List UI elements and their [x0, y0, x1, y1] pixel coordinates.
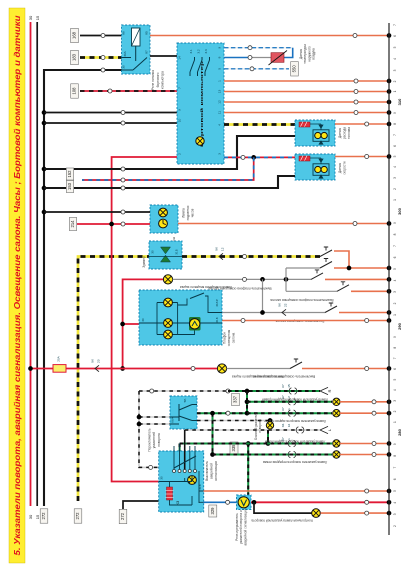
svg-text:салона: салона — [232, 332, 236, 343]
svg-text:9: 9 — [393, 443, 397, 445]
svg-text:85: 85 — [145, 31, 149, 35]
svg-text:К7: К7 — [281, 384, 285, 388]
svg-text:4: 4 — [393, 279, 397, 281]
wire buzzer yellow-black out — [182, 255, 320, 258]
svg-text:300: 300 — [397, 207, 402, 214]
svg-text:сигнализации: сигнализации — [214, 461, 218, 482]
wire rear right turn lamp row — [247, 412, 332, 414]
svg-text:5: 5 — [218, 68, 222, 70]
svg-text:7: 7 — [393, 245, 397, 247]
svg-text:183: 183 — [72, 53, 77, 61]
svg-text:329: 329 — [210, 507, 215, 515]
svg-text:5: 5 — [393, 490, 397, 492]
resistor K3 — [167, 487, 173, 500]
svg-text:8: 8 — [218, 56, 222, 58]
track ruler — [388, 23, 390, 535]
svg-text:Выключатель: Выключатель — [205, 461, 209, 481]
lamp hazard — [188, 476, 197, 485]
svg-text:30А: 30А — [123, 50, 127, 56]
wire red branch to glovebox lamp and dome light — [123, 279, 168, 368]
svg-text:подсветки: подсветки — [186, 205, 190, 220]
wire pin8 blue to temp sensor — [224, 57, 250, 59]
timer unit with lamp — [189, 317, 201, 331]
svg-text:16: 16 — [287, 424, 291, 428]
svg-text:6: 6 — [393, 478, 397, 480]
svg-text:3.2: 3.2 — [197, 49, 201, 54]
wire clock orange to track — [178, 223, 389, 225]
svg-text:4: 4 — [393, 58, 397, 60]
svg-text:31Б: 31Б — [198, 484, 202, 489]
svg-text:12: 12 — [218, 100, 222, 104]
label 337 — [232, 394, 240, 406]
svg-text:280: 280 — [397, 428, 402, 435]
hazard switch U8 — [159, 451, 204, 512]
wire bw vertical turn switch feed — [139, 391, 228, 467]
svg-text:6: 6 — [393, 35, 397, 37]
node 272-clock — [42, 210, 47, 215]
svg-text:К3: К3 — [175, 500, 180, 505]
wire speed sensor ground — [44, 176, 295, 188]
svg-text:5: 5 — [393, 378, 397, 380]
svg-text:5: 5 — [393, 268, 397, 270]
svg-text:5. Указатели поворота, аварийн: 5. Указатели поворота, аварийная сигнали… — [13, 16, 22, 556]
wire front right turn lamp row — [247, 401, 332, 403]
lamp turn front right — [333, 398, 340, 405]
svg-text:К7: К7 — [281, 407, 285, 411]
lamp clock illumination — [159, 208, 168, 217]
svg-text:310: 310 — [397, 98, 402, 105]
wire row L fork bw — [185, 429, 320, 431]
lamp turn front left — [333, 451, 340, 458]
svg-text:8: 8 — [393, 347, 397, 349]
svg-text:30: 30 — [141, 318, 145, 322]
lamp turn rear right — [333, 410, 340, 417]
thermistor outside temperature sensor — [271, 53, 284, 63]
buzzer U5 — [149, 241, 182, 269]
svg-text:550: 550 — [292, 65, 297, 73]
lamp turn rear left — [333, 440, 340, 447]
wire row door switch S2 — [286, 267, 320, 269]
svg-text:2: 2 — [393, 410, 397, 412]
wire fuel sensor ground — [44, 136, 295, 169]
svg-text:3: 3 — [393, 400, 397, 402]
svg-text:31Б: 31Б — [175, 249, 179, 254]
switch door S1 — [320, 250, 332, 257]
svg-text:30: 30 — [122, 65, 126, 69]
svg-text:31Б: 31Б — [215, 317, 219, 322]
svg-text:Лампа: Лампа — [182, 208, 186, 218]
svg-text:часов: часов — [191, 208, 195, 217]
svg-text:1: 1 — [393, 199, 397, 201]
svg-text:Х6: Х6 — [281, 423, 285, 427]
svg-text:3.1: 3.1 — [189, 49, 193, 54]
wire 168 — [71, 28, 79, 42]
wire orange S1 to node — [334, 251, 349, 268]
svg-text:23: 23 — [97, 359, 101, 363]
svg-text:2: 2 — [178, 153, 182, 155]
svg-text:4: 4 — [393, 502, 397, 504]
wire relay85 orange to track — [150, 35, 389, 37]
svg-text:Контрольная лампа указателей п: Контрольная лампа указателей поворота — [251, 519, 312, 523]
wire pin1 orange — [224, 80, 389, 82]
svg-text:31БР: 31БР — [215, 299, 219, 307]
svg-text:Выключатель плафона освещения: Выключатель плафона освещения салона — [208, 287, 271, 291]
svg-text:К6А: К6А — [171, 416, 175, 423]
svg-text:топлива: топлива — [347, 127, 351, 139]
svg-text:290: 290 — [397, 322, 402, 329]
node 272-fuel — [42, 167, 47, 172]
wire red pin2 to hazard switch — [112, 157, 177, 482]
wire emitter bw row — [197, 420, 270, 422]
lamp glovebox 2 — [217, 364, 226, 373]
svg-text:10: 10 — [178, 119, 182, 123]
svg-text:7: 7 — [393, 357, 397, 359]
svg-text:Реле питания: Реле питания — [151, 70, 155, 90]
wire 272 hazard ground — [123, 501, 159, 509]
svg-text:8: 8 — [393, 455, 397, 457]
svg-text:22: 22 — [284, 303, 288, 307]
svg-text:аварийной: аварийной — [210, 463, 214, 479]
wire flasher out red — [251, 501, 389, 503]
svg-text:87: 87 — [145, 50, 149, 54]
relay K power of onboard computer — [122, 25, 151, 74]
svg-text:152: 152 — [67, 170, 72, 178]
hazard internal wires — [159, 471, 204, 505]
vertical links — [263, 268, 287, 313]
label 329 — [209, 505, 217, 517]
label 335 — [230, 442, 238, 454]
svg-text:6: 6 — [393, 368, 397, 370]
svg-text:153: 153 — [67, 182, 72, 190]
svg-text:ХК: ХК — [91, 359, 95, 363]
svg-text:6: 6 — [393, 256, 397, 258]
svg-text:7: 7 — [178, 87, 182, 89]
svg-text:8: 8 — [393, 123, 397, 125]
wire green row R fork — [228, 390, 320, 392]
svg-text:Переключатель: Переключатель — [148, 428, 152, 452]
wire to glovebox switch 2 — [227, 368, 290, 370]
svg-text:272: 272 — [75, 512, 80, 520]
wire clock ground — [44, 211, 150, 213]
svg-text:расхода: расхода — [343, 127, 347, 139]
svg-text:ХК: ХК — [215, 247, 219, 251]
wire 152 153 blue-red — [82, 157, 254, 180]
wire to control lamp — [254, 502, 312, 513]
svg-text:13: 13 — [218, 90, 222, 94]
wire pin11 orange — [224, 112, 389, 114]
svg-text:Датчик: Датчик — [338, 162, 342, 173]
rail 15 black supply — [36, 22, 38, 506]
svg-text:Лампа указателя поворота перед: Лампа указателя поворота передняя правая — [262, 398, 328, 402]
svg-text:14: 14 — [178, 56, 182, 60]
wire rear left turn lamp row — [180, 443, 332, 445]
lamp turn control — [312, 509, 321, 518]
svg-text:Лампа указателя поворота задня: Лампа указателя поворота задняя левая — [265, 439, 326, 443]
flasher relay K2 — [237, 495, 252, 510]
wire dome orange to track — [222, 320, 389, 322]
svg-text:1: 1 — [393, 90, 397, 92]
fuse 20A — [53, 365, 66, 373]
svg-text:2: 2 — [393, 525, 397, 527]
svg-text:20А: 20А — [57, 355, 61, 361]
svg-text:272: 272 — [41, 512, 46, 520]
wire front left turn lamp row — [213, 454, 333, 456]
svg-text:337: 337 — [233, 395, 238, 403]
wire fuel sensor orange — [335, 123, 389, 125]
svg-text:бортового: бортового — [156, 72, 160, 87]
svg-text:9: 9 — [393, 336, 397, 338]
svg-text:1: 1 — [393, 314, 397, 316]
svg-text:указателей: указателей — [152, 432, 156, 449]
svg-text:5: 5 — [393, 155, 397, 157]
svg-text:6: 6 — [393, 145, 397, 147]
svg-text:3: 3 — [393, 177, 397, 179]
title bar — [9, 8, 25, 563]
svg-text:Лампа указателя поворота задня: Лампа указателя поворота задняя правая — [264, 419, 326, 423]
wire row S4 — [286, 290, 337, 292]
svg-text:15: 15 — [35, 514, 40, 519]
svg-text:3: 3 — [393, 291, 397, 293]
svg-text:30: 30 — [28, 15, 33, 20]
wire ground to pin10 — [44, 122, 177, 124]
svg-text:компьютера: компьютера — [161, 71, 165, 89]
wire hazard orange out — [204, 490, 389, 492]
wire ground to pin9 — [44, 112, 177, 114]
clock U4 box — [150, 205, 178, 233]
svg-text:9: 9 — [393, 222, 397, 224]
svg-text:Выключатель плафона освещения: Выключатель плафона освещения салона — [270, 298, 333, 302]
svg-text:воздуха: воздуха — [312, 48, 316, 60]
svg-text:Лампа указателя поворота перед: Лампа указателя поворота передняя левая — [263, 460, 327, 464]
switch S3 — [311, 273, 323, 280]
svg-text:214: 214 — [70, 220, 75, 228]
svg-text:3: 3 — [393, 69, 397, 71]
svg-text:168: 168 — [72, 31, 77, 39]
svg-text:86: 86 — [122, 31, 126, 35]
svg-text:30: 30 — [160, 476, 164, 480]
wire pin3 blue-red speed signal — [224, 156, 295, 158]
svg-text:1: 1 — [218, 80, 222, 82]
svg-text:ХК: ХК — [278, 303, 282, 307]
lamps dome — [164, 298, 173, 307]
wire hazard blue to flasher — [204, 501, 237, 503]
lamp glovebox 1 — [163, 275, 172, 284]
wire row S5 dome switch line — [222, 312, 325, 314]
wire 550 pin5 blue-white — [224, 68, 289, 70]
wire orange track — [302, 368, 389, 370]
svg-text:11: 11 — [218, 111, 222, 114]
svg-text:30: 30 — [28, 514, 33, 519]
svg-text:Зуммер: Зуммер — [142, 256, 146, 268]
svg-text:15: 15 — [287, 384, 291, 388]
svg-text:Выключатель освещения вещевого: Выключатель освещения вещевого ящика — [253, 375, 316, 379]
wire 108 black-red — [71, 84, 79, 98]
clock symbol — [159, 219, 168, 228]
wire 183 yellow-black — [71, 50, 79, 64]
svg-text:R: R — [327, 389, 332, 392]
svg-text:12: 12 — [221, 247, 225, 251]
svg-text:4: 4 — [393, 166, 397, 168]
svg-text:5Б: 5Б — [183, 399, 187, 403]
op-unit U1 onboard computer — [177, 43, 224, 164]
wire pin13 orange — [224, 91, 389, 93]
wire left lamps feed vertical — [267, 430, 269, 444]
svg-text:4: 4 — [393, 389, 397, 391]
wire speed sensor orange — [335, 156, 389, 158]
svg-text:3.3: 3.3 — [204, 49, 208, 54]
svg-text:108: 108 — [72, 87, 77, 95]
wire glovebox1 to switch S3 — [173, 278, 311, 280]
svg-text:9: 9 — [393, 112, 397, 114]
svg-text:7: 7 — [393, 466, 397, 468]
wire 272 yellow-black to buzzer — [78, 257, 149, 502]
svg-text:Плафон: Плафон — [223, 332, 227, 344]
svg-text:8: 8 — [393, 233, 397, 235]
wire green hazard to flasher vertical — [247, 444, 249, 496]
switch glovebox 2 — [290, 362, 302, 369]
svg-text:2: 2 — [393, 188, 397, 190]
svg-text:7: 7 — [393, 24, 397, 26]
svg-text:7: 7 — [393, 134, 397, 136]
svg-text:аварийной сигнализации: аварийной сигнализации — [243, 508, 247, 545]
connector XK23 — [95, 365, 99, 371]
switches 3.1 3.2 3.3 — [190, 57, 195, 76]
svg-text:2: 2 — [287, 396, 291, 398]
svg-text:30: 30 — [151, 250, 155, 254]
svg-text:Датчик: Датчик — [338, 127, 342, 138]
wire pin4 yellow-black to fuel sensor — [224, 123, 295, 126]
wire pin9 blue-white dashed top of sensor loop — [224, 47, 293, 49]
wire collector green to node — [197, 412, 247, 414]
hazard lever — [174, 456, 196, 468]
svg-text:2: 2 — [393, 302, 397, 304]
dome light U6 interior lamp — [139, 290, 222, 345]
svg-text:поворота: поворота — [157, 433, 161, 447]
node 272-9 — [42, 110, 47, 115]
svg-text:272: 272 — [120, 512, 125, 520]
svg-text:скорости: скорости — [343, 161, 347, 174]
wire fused feed from rail 30 — [31, 368, 218, 370]
svg-text:3: 3 — [218, 153, 222, 155]
svg-text:освещения: освещения — [227, 330, 231, 347]
svg-text:5: 5 — [393, 46, 397, 48]
svg-text:3: 3 — [393, 513, 397, 515]
wire 214 red — [69, 218, 76, 231]
rail 272 ground bus — [44, 70, 122, 506]
svg-text:9: 9 — [178, 109, 182, 111]
hazard pins stubs — [174, 444, 195, 470]
svg-text:1: 1 — [287, 408, 291, 410]
svg-text:1: 1 — [393, 421, 397, 423]
lamp side repeater right — [269, 421, 271, 431]
sensor U2 fuel flow — [295, 120, 335, 146]
sensor U3 speed — [295, 154, 335, 180]
svg-text:4: 4 — [218, 124, 222, 126]
turn switch U7 — [170, 396, 197, 429]
lamp inside computer — [196, 137, 204, 145]
wire relay87 to computer pin14 — [150, 55, 177, 57]
wire green vertical from switch to left rows — [212, 413, 214, 454]
svg-text:15: 15 — [35, 15, 40, 20]
svg-text:Бортовой компьютер: Бортовой компьютер — [199, 60, 204, 147]
node 272-10 — [42, 121, 47, 126]
wire pin12 orange — [224, 101, 389, 103]
svg-text:335: 335 — [231, 444, 236, 452]
svg-text:2: 2 — [393, 80, 397, 82]
node 272-speed — [42, 186, 47, 191]
svg-text:9: 9 — [218, 47, 222, 49]
rail 30 red supply — [30, 22, 32, 506]
